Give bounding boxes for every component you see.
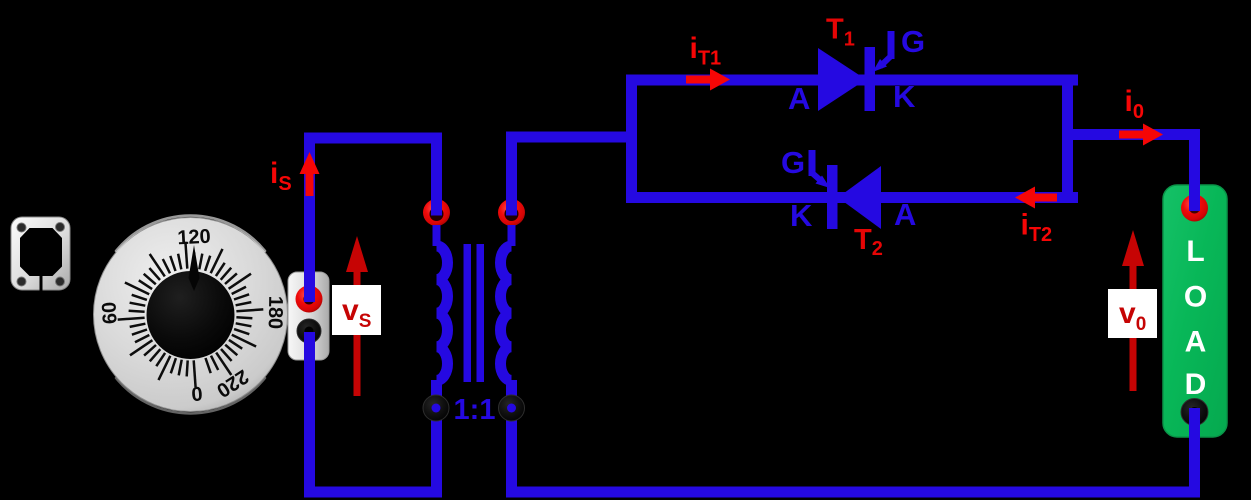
wire primary coil lead (433, 225, 441, 246)
transformer TR1 primary winding (437, 246, 448, 380)
wire thyristor block right vertical (1062, 80, 1073, 198)
load (1163, 185, 1227, 437)
transformer primary top terminal (423, 199, 450, 226)
svg-text:G: G (901, 24, 925, 59)
wire secondary coil lead (508, 225, 516, 246)
svg-text:O: O (1184, 281, 1207, 314)
wire primary loop left/top (310, 138, 437, 492)
svg-text:A: A (788, 81, 810, 116)
transformer core (464, 244, 485, 382)
knob (147, 271, 235, 359)
svg-text:0: 0 (191, 382, 204, 405)
wire from load bottom (1189, 408, 1200, 492)
svg-text:A: A (894, 197, 916, 232)
label vS (332, 285, 381, 335)
thyristor T2 (809, 150, 882, 229)
transformer primary bottom terminal (423, 395, 449, 421)
label v0 (1108, 289, 1157, 338)
variac dial (94, 216, 288, 414)
wire bottom rail (512, 380, 1201, 492)
current arrow i0 (1119, 124, 1163, 146)
svg-text:180: 180 (264, 296, 287, 330)
current arrow iT1 (686, 69, 730, 91)
svg-text:K: K (893, 79, 916, 114)
load top terminal (1181, 195, 1208, 222)
wire from TB1 bottom terminal (304, 332, 315, 362)
voltage arrow vS (346, 236, 368, 396)
transformer secondary top terminal (498, 199, 525, 226)
thyristor T1 (818, 31, 895, 111)
transformer secondary bottom terminal (499, 395, 525, 421)
current arrow iT2 (1015, 187, 1057, 209)
svg-text:D: D (1185, 368, 1207, 401)
svg-text:K: K (790, 198, 813, 233)
svg-text:60: 60 (98, 301, 121, 324)
transformer TR1 secondary winding (500, 246, 511, 380)
svg-text:A: A (1185, 326, 1207, 359)
voltage arrow v0 (1122, 230, 1144, 391)
svg-text:G: G (781, 145, 805, 180)
load bottom terminal (1181, 399, 1208, 426)
wire output to load (1062, 135, 1195, 212)
wire primary loop bottom (304, 380, 437, 492)
wall plug P1 (11, 217, 70, 292)
wire secondary to thyristor block (512, 137, 632, 216)
svg-text:1:1: 1:1 (454, 394, 496, 426)
svg-text:L: L (1186, 235, 1204, 268)
wire thyristor block left vertical (626, 80, 637, 198)
wire into TB1 top terminal (304, 270, 315, 302)
wire top branch (626, 75, 1078, 86)
current arrow iS (300, 152, 320, 196)
wire bottom branch (626, 192, 1078, 203)
knob pointer (189, 245, 200, 291)
terminal block TB1 (288, 272, 329, 360)
